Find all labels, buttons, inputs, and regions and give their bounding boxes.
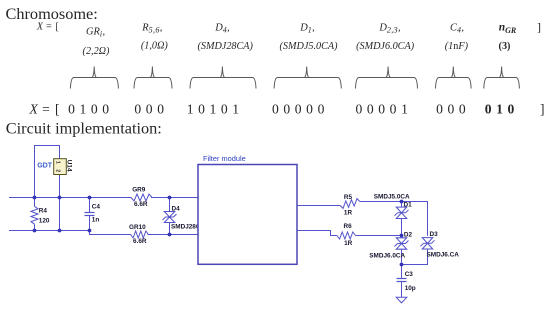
svg-text:1R: 1R bbox=[344, 209, 353, 216]
svg-text:1R: 1R bbox=[344, 240, 353, 247]
svg-text:D2: D2 bbox=[404, 232, 413, 239]
svg-text:120: 120 bbox=[39, 218, 50, 225]
svg-text:0 0 0: 0 0 0 bbox=[436, 101, 466, 116]
svg-text:GDT: GDT bbox=[37, 163, 53, 170]
svg-text:6.6R: 6.6R bbox=[134, 201, 148, 208]
svg-text:]: ] bbox=[537, 20, 541, 34]
svg-text:R5: R5 bbox=[344, 194, 353, 201]
svg-text:(SMDJ6.0CA): (SMDJ6.0CA) bbox=[356, 41, 415, 52]
svg-text:D3: D3 bbox=[430, 231, 439, 238]
svg-text:]: ] bbox=[540, 102, 545, 117]
svg-text:SMDJ5.0CA: SMDJ5.0CA bbox=[374, 193, 410, 200]
svg-text:SMDJ6.0CA: SMDJ6.0CA bbox=[369, 252, 405, 259]
svg-text:D4: D4 bbox=[172, 206, 181, 213]
svg-text:(SMDJ5.0CA): (SMDJ5.0CA) bbox=[280, 41, 339, 52]
svg-text:(1,0Ω): (1,0Ω) bbox=[141, 41, 168, 52]
svg-text:X = [: X = [ bbox=[29, 101, 61, 116]
svg-text:(3): (3) bbox=[499, 41, 511, 52]
svg-text:GR10: GR10 bbox=[129, 224, 146, 231]
svg-text:(SMDJ28CA): (SMDJ28CA) bbox=[197, 41, 253, 52]
svg-text:GR9: GR9 bbox=[132, 186, 146, 193]
svg-text:X = [: X = [ bbox=[36, 21, 59, 32]
svg-text:0 1 0: 0 1 0 bbox=[485, 101, 515, 116]
svg-text:0 1 0 0: 0 1 0 0 bbox=[68, 101, 110, 116]
svg-text:(2,2Ω): (2,2Ω) bbox=[83, 46, 110, 57]
svg-text:(1nF): (1nF) bbox=[445, 41, 469, 52]
svg-text:R6: R6 bbox=[344, 223, 353, 230]
svg-text:R4: R4 bbox=[39, 208, 48, 215]
svg-text:0 0 0: 0 0 0 bbox=[134, 101, 164, 116]
svg-text:6.6R: 6.6R bbox=[133, 238, 147, 245]
svg-text:D1: D1 bbox=[404, 202, 413, 209]
svg-text:C3: C3 bbox=[405, 271, 414, 278]
svg-text:Circuit implementation:: Circuit implementation: bbox=[6, 118, 162, 137]
svg-text:1 0 1 0 1: 1 0 1 0 1 bbox=[187, 101, 240, 116]
svg-text:2: 2 bbox=[55, 169, 61, 172]
svg-text:Chromosome:: Chromosome: bbox=[6, 4, 98, 23]
svg-text:Filter module: Filter module bbox=[203, 154, 246, 163]
svg-text:U14: U14 bbox=[65, 160, 72, 172]
svg-text:1: 1 bbox=[55, 161, 61, 164]
svg-text:1n: 1n bbox=[92, 217, 100, 224]
svg-text:0 0 0 0 0: 0 0 0 0 0 bbox=[272, 101, 325, 116]
svg-text:GRi,: GRi, bbox=[86, 26, 105, 38]
svg-text:D4,: D4, bbox=[214, 22, 230, 34]
svg-text:D1,: D1, bbox=[299, 22, 315, 34]
svg-text:10p: 10p bbox=[405, 285, 416, 292]
svg-text:C4: C4 bbox=[92, 204, 101, 211]
svg-text:SMDJ6.CA: SMDJ6.CA bbox=[427, 251, 460, 258]
svg-text:0 0 0 0 1: 0 0 0 0 1 bbox=[356, 101, 409, 116]
